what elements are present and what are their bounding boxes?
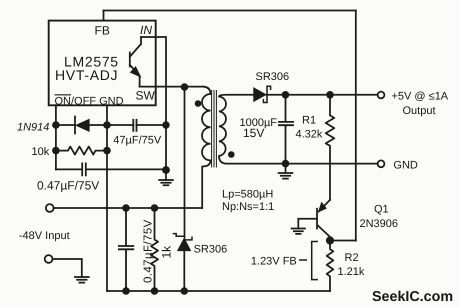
svg-text:1.21k: 1.21k — [338, 266, 365, 278]
svg-text:Lp=580µH: Lp=580µH — [222, 189, 273, 201]
transformer core — [212, 91, 217, 168]
ground G4 — [75, 277, 89, 283]
node row1 left — [52, 121, 60, 129]
svg-text:Output: Output — [403, 105, 436, 117]
svg-text:4.32k: 4.32k — [296, 129, 323, 141]
svg-text:+5V @ ≤1A: +5V @ ≤1A — [392, 91, 449, 103]
op-amp U1 LM2575 box — [49, 21, 156, 106]
svg-text:GND: GND — [393, 159, 418, 171]
terminal GND — [378, 160, 385, 167]
wire output row — [267, 94, 378, 96]
capacitor C3 0.47uF/75V — [119, 208, 133, 291]
wire FB top rail — [104, 10, 356, 12]
svg-text:SR306: SR306 — [256, 71, 290, 83]
wire Q1 base — [298, 219, 317, 229]
terminal -48V lower — [45, 255, 53, 263]
node row2 right — [103, 147, 111, 155]
transistor inside U1 — [130, 37, 141, 87]
svg-text:10k: 10k — [32, 146, 50, 158]
wire GND pin line — [106, 105, 108, 291]
wire IN pin — [141, 37, 166, 171]
svg-text:Q1: Q1 — [374, 203, 389, 215]
node FB divider junction — [326, 236, 334, 244]
svg-text:SR306: SR306 — [194, 244, 228, 256]
ground G3 — [292, 229, 305, 234]
svg-text:2N3906: 2N3906 — [360, 218, 399, 230]
terminal +5V output — [378, 92, 385, 99]
resistor R3 10k — [56, 147, 107, 155]
node bottom D3 — [181, 287, 189, 295]
node output R1 junction — [326, 91, 334, 99]
wire FB pin stub — [103, 11, 105, 21]
svg-text:47µF/75V: 47µF/75V — [113, 135, 162, 147]
wire snubber vertical — [184, 87, 186, 236]
svg-text:R2: R2 — [345, 252, 359, 264]
capacitor C4 0.47uF row3 — [56, 163, 166, 175]
svg-text:FB: FB — [95, 24, 110, 38]
ground G2 — [285, 164, 287, 173]
svg-text:ON/OFF GND: ON/OFF GND — [55, 95, 124, 107]
svg-text:0.47µF/75V: 0.47µF/75V — [37, 178, 99, 192]
terminal -48V upper — [46, 204, 54, 212]
node row2 left — [52, 147, 60, 155]
svg-text:1k: 1k — [160, 245, 174, 259]
transistor Q1 — [317, 200, 330, 241]
ground G1 — [165, 171, 167, 181]
diode D1 SR306 top — [254, 88, 266, 101]
wire bottom rail — [107, 290, 330, 292]
svg-text:1.23V FB: 1.23V FB — [251, 256, 297, 268]
capacitor C1 47uF — [133, 120, 136, 131]
wire FB right vertical — [355, 11, 357, 241]
wire SW to transformer — [140, 86, 204, 88]
node IN-row3 junction — [162, 166, 170, 174]
node rail R4 junction — [151, 204, 159, 212]
wire input rail — [54, 207, 203, 209]
svg-text:Np:Ns=1:1: Np:Ns=1:1 — [222, 201, 274, 213]
node bottom R4 — [151, 287, 159, 295]
node rail C3 junction — [122, 204, 130, 212]
node output cap junction — [282, 91, 290, 99]
diode D4 1N914 — [56, 117, 75, 134]
wire GND row — [286, 163, 378, 165]
node row1 gnd-pin — [103, 121, 111, 129]
resistor R2 — [327, 241, 334, 292]
diode D3 SR306 bottom — [174, 234, 193, 240]
resistor R1 — [326, 95, 335, 200]
resistor R4 1k — [151, 208, 158, 291]
node GND rail junction — [282, 160, 290, 168]
svg-text:R1: R1 — [302, 115, 316, 127]
svg-text:SW: SW — [136, 89, 156, 103]
node SW junction — [181, 83, 189, 91]
capacitor C2 1000uF — [279, 95, 293, 164]
svg-text:IN: IN — [140, 23, 152, 37]
svg-text:-48V Input: -48V Input — [19, 230, 70, 242]
svg-text:HVT-ADJ: HVT-ADJ — [55, 67, 118, 83]
svg-text:SeekIC.com: SeekIC.com — [372, 289, 453, 305]
node IN-row1 junction — [162, 121, 169, 128]
node secondary phase dot — [228, 151, 235, 158]
bracket 1.23V FB — [312, 242, 318, 280]
wire FB to divider node — [330, 240, 356, 242]
transformer T1 primary winding — [202, 87, 211, 208]
transformer T1 secondary winding — [219, 95, 286, 164]
svg-text:15V: 15V — [243, 126, 264, 140]
wire to chassis ground — [53, 259, 82, 277]
node bottom C3 — [122, 287, 130, 295]
node primary phase dot — [195, 100, 202, 107]
svg-text:1N914: 1N914 — [17, 122, 49, 134]
svg-text:0.47µF/75V: 0.47µF/75V — [143, 219, 155, 283]
wire ON/OFF pin line — [55, 105, 57, 169]
